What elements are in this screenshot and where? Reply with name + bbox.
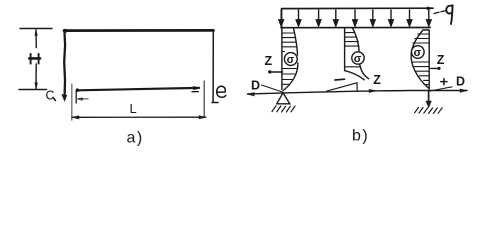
right column (212, 30, 214, 102)
svg-text:a): a) (127, 130, 144, 147)
middle stress bulb outline (345, 28, 369, 80)
H dimension line upper segment (35, 30, 37, 48)
load arrow 7 (389, 10, 394, 26)
leader dashes to q (434, 11, 446, 14)
svg-text:C: C (46, 89, 55, 103)
load arrow 9 (427, 10, 432, 26)
middle bulb hatch (345, 33, 361, 67)
right support ground hatching (415, 108, 443, 114)
left sigma circle (284, 53, 297, 66)
Z left dash with dot (270, 71, 283, 73)
load arrow 6 (371, 10, 376, 26)
axis right arrowhead (460, 89, 467, 92)
beam axis line (248, 91, 468, 95)
left beam stub grey arrow (79, 98, 89, 100)
H dimension upper arrowhead (35, 31, 38, 36)
left support ground hatching (272, 106, 295, 112)
plus sign (441, 79, 447, 85)
svg-text:Z: Z (265, 54, 273, 68)
svg-text:b): b) (352, 128, 369, 145)
left beam stub vertical (75, 91, 77, 103)
right bulb hatch (411, 34, 429, 85)
shear wedge (327, 83, 358, 91)
left edge vertical of load block (281, 9, 283, 28)
load arrow 4 (334, 10, 339, 26)
right column foot (212, 102, 218, 104)
frame top beam (64, 29, 214, 32)
load arrow 8 (407, 10, 412, 26)
label H (hand-drawn) (31, 54, 39, 64)
minus sign (335, 78, 345, 81)
svg-text:D: D (251, 79, 260, 93)
leader from right support to D (430, 87, 452, 91)
axis left arrowhead (247, 92, 255, 96)
left witness line (grey) (71, 84, 73, 120)
left bulb hatch (282, 33, 297, 84)
load arrow 5 (353, 10, 358, 26)
leader from D to left support (262, 85, 283, 92)
load arrow 3 (316, 10, 321, 26)
right support arrowhead (426, 101, 431, 108)
right sigma circle (412, 46, 425, 59)
beam right end arrowhead (194, 86, 201, 89)
svg-text:σ: σ (414, 47, 422, 59)
Z right dash with dot (431, 67, 440, 69)
middle sigma circle (352, 52, 364, 64)
svg-text:Z: Z (437, 53, 445, 67)
svg-text:Z: Z (373, 73, 381, 87)
right beam stub line (192, 91, 199, 93)
right witness line (203, 81, 205, 118)
left column bottom arrowhead (62, 95, 67, 102)
H dimension line lower segment (35, 64, 37, 89)
beam left end dot (76, 88, 80, 92)
svg-text:σ: σ (354, 53, 362, 65)
label q (handwritten) (446, 5, 452, 24)
H dimension bottom tick (19, 89, 47, 91)
svg-text:D: D (456, 75, 465, 89)
H dimension top tick (20, 28, 52, 30)
right stress bulb outline (411, 30, 429, 91)
label e (hand-drawn) (217, 86, 226, 97)
L dim left arrowhead (72, 116, 79, 119)
load top line (282, 7, 433, 9)
left stub arrowhead (77, 98, 82, 101)
left column (63, 30, 66, 96)
L dim right arrowhead (199, 116, 206, 119)
left stress bulb outline (282, 28, 298, 91)
svg-text:σ: σ (287, 54, 295, 66)
L dimension line (72, 116, 206, 118)
svg-text:L: L (130, 101, 137, 116)
right support stem (428, 92, 430, 104)
H dimension lower arrowhead (35, 83, 38, 89)
left support triangle (277, 93, 290, 104)
load arrow 2 (296, 10, 301, 26)
bottom beam (strut) (77, 88, 199, 90)
load arrow 1 (279, 10, 284, 26)
frame top-left corner dot (64, 29, 68, 33)
axis mid arrowhead (369, 89, 376, 92)
beam top line (281, 27, 430, 29)
comma after C (53, 98, 56, 101)
load line right arrowhead (427, 7, 434, 10)
